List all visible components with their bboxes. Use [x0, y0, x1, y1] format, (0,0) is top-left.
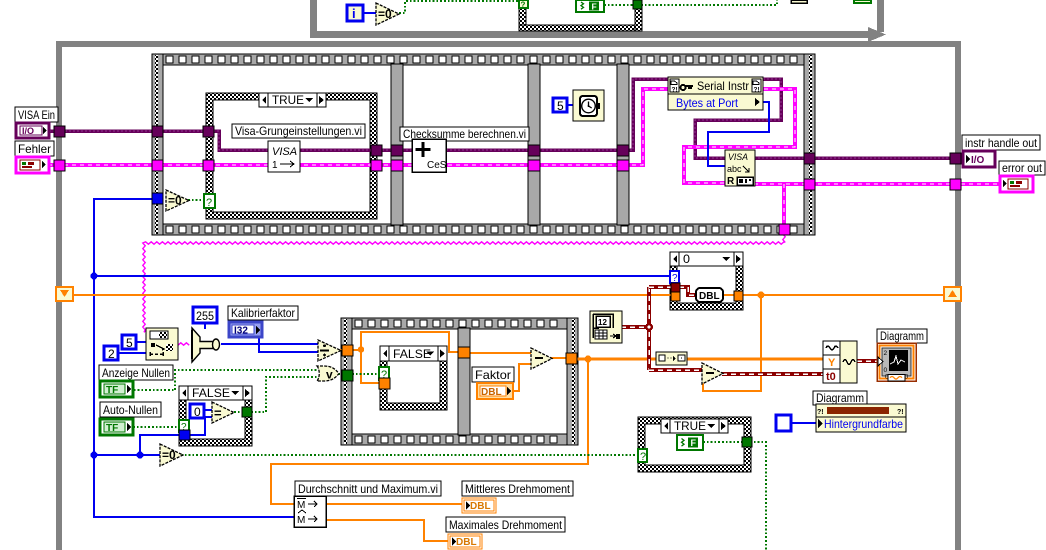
svg-text:?: ?: [206, 197, 212, 209]
tunnel blue FALSE case left: [179, 430, 190, 440]
case 0 DBL conversion: [696, 288, 723, 302]
svg-text:5: 5: [126, 336, 133, 350]
tunnel: pink on main frame left: [54, 160, 65, 171]
wire: blue constants to serial node: [136, 341, 146, 343]
svg-text:Serial Instr: Serial Instr: [697, 79, 749, 93]
tunnel divider seq2: [458, 347, 470, 358]
svg-text:DBL: DBL: [470, 501, 491, 512]
tunnel orange case0 right: [734, 291, 743, 301]
svg-text:I/O: I/O: [22, 126, 34, 136]
svg-text:Maximales Drehmoment: Maximales Drehmoment: [449, 518, 563, 532]
Wait (ms) icon: [573, 90, 604, 121]
selector FALSE case seq2: [379, 367, 389, 380]
Visa-Grungeinstellungen.vi label: [232, 124, 365, 138]
svg-text:?!: ?!: [672, 87, 678, 94]
Durchschnitt und Maximum.vi: [295, 481, 441, 496]
wire: i32 main blue net: [94, 198, 153, 200]
svg-text:M: M: [297, 515, 305, 526]
wire: timestamp maroon dashed: [621, 325, 649, 329]
wire: VISA resource (dark purple): [49, 79, 668, 150]
shift register right: [944, 287, 961, 301]
subtract node (seq2): [531, 348, 552, 369]
property node Serial Instr / Bytes at Port: [668, 77, 763, 110]
svg-text:?: ?: [521, 1, 526, 10]
wire: string (pink squiggle serial node to byte-array): [178, 343, 189, 345]
selector FALSE case left: [179, 420, 189, 432]
case structure 0 (middle right): [670, 252, 743, 310]
Visa-Grungeinstellungen.vi icon: [268, 141, 300, 172]
svg-text:Anzeige Nullen: Anzeige Nullen: [102, 366, 170, 380]
flat sequence structure (4 frames): [152, 54, 815, 65]
tunnels divider 1: [391, 145, 403, 156]
svg-text:TRUE: TRUE: [674, 419, 706, 433]
junction dots blue: [91, 273, 98, 280]
wire: color box to property node: [790, 422, 817, 424]
green dotted top loop: [399, 1, 519, 13]
tunnel orange case0 left: [671, 292, 680, 301]
Checksumme berechnen.vi label: [400, 127, 529, 141]
svg-text:TF: TF: [106, 385, 118, 396]
svg-text:TF: TF: [106, 423, 118, 434]
case structure TRUE (bottom right): [638, 417, 751, 472]
node (tan, partially visible top): [791, 0, 807, 3]
to-array small icon on Y wire: [656, 352, 687, 365]
selector TRUE case bottom: [638, 449, 647, 462]
case structure FALSE (inside sequence 2): [380, 346, 447, 410]
boolean local F icon (top loop case): [576, 0, 604, 12]
tunnel green top loop case: [633, 0, 642, 9]
wire: Bytes at Port to VISA read: [708, 102, 769, 166]
svg-text:Auto-Nullen: Auto-Nullen: [103, 403, 158, 417]
case structure TRUE (frame 1 of sequence): [206, 93, 377, 219]
svg-text:VISA: VISA: [728, 152, 748, 162]
svg-text:255: 255: [196, 309, 214, 323]
serial port init icon: [146, 328, 178, 360]
selector terminal case 0 (blue ?): [670, 271, 679, 283]
svg-text:Hintergrundfarbe: Hintergrundfarbe: [824, 417, 903, 431]
numeric constant 5 (serial): [122, 335, 136, 349]
while loop (main outer frame): [56, 41, 62, 550]
svg-text:FALSE: FALSE: [192, 386, 230, 400]
svg-text:v: v: [326, 368, 333, 382]
svg-text:Diagramm: Diagramm: [880, 329, 924, 343]
tunnels on case TRUE: [203, 126, 214, 137]
wire: error cluster (pink dashed): [48, 89, 795, 183]
wire: orange inside case 0: [723, 294, 735, 296]
tunnel: purple on main frame left: [54, 126, 65, 137]
subtract node (timestamp): [702, 363, 723, 384]
=0 node (frame 1): [166, 190, 189, 211]
while loop (top, partially visible): [310, 0, 317, 37]
VISA Read icon: [725, 150, 755, 186]
tunnel green TRUE case bottom right: [742, 437, 752, 447]
wire: orange shift register run: [72, 294, 671, 296]
svg-text:FALSE: FALSE: [393, 347, 431, 361]
selector top loop case: [519, 0, 528, 8]
svg-text:F: F: [691, 438, 697, 448]
tunnel seq2 right: [566, 353, 577, 364]
svg-text:1: 1: [272, 160, 278, 171]
tunnel: pink seq1 left: [152, 160, 163, 171]
Maximales Drehmoment indicator: [446, 517, 565, 532]
tunnels main frame right: [950, 153, 961, 164]
color box constant: [776, 415, 791, 431]
svg-text:t0: t0: [826, 371, 836, 383]
divide node: [318, 340, 341, 361]
svg-text:0: 0: [683, 252, 690, 266]
tunnel orange FALSE case seq2: [379, 378, 390, 389]
tunnel maroon case0: [671, 283, 680, 292]
svg-text:VISA: VISA: [272, 146, 297, 158]
svg-text:?: ?: [672, 273, 678, 284]
svg-text:Y: Y: [828, 357, 836, 369]
instr handle out indicator: [962, 135, 1040, 150]
or node: [317, 366, 339, 381]
svg-text:Kalibrierfaktor: Kalibrierfaktor: [231, 306, 295, 320]
Build Waveform node: [823, 341, 857, 383]
Diagramm property node (Hintergrundfarbe): [813, 391, 867, 405]
wire: i to =0 (top loop): [363, 12, 377, 14]
tunnel: purple seq1 left: [152, 126, 163, 137]
boolean indicator (partially visible top): [854, 0, 871, 3]
Kalibrierfaktor control: [228, 306, 298, 320]
svg-text:abc: abc: [727, 164, 742, 174]
svg-text:?!: ?!: [754, 87, 760, 94]
svg-text:TRUE: TRUE: [272, 93, 304, 107]
svg-text:Faktor: Faktor: [475, 368, 511, 382]
wire: orange DBL outputs bottom: [326, 503, 463, 505]
svg-text:2: 2: [108, 347, 115, 361]
svg-text:i: i: [352, 6, 356, 21]
iteration terminal i (top loop): [347, 5, 363, 21]
wire: boolean green dotted nets: [130, 389, 175, 391]
Anzeige Nullen control: [99, 365, 173, 380]
svg-text:2: 2: [884, 350, 888, 357]
numeric constant 5 (frame 3): [553, 98, 567, 112]
error out indicator: [999, 161, 1045, 175]
shift register left: [56, 287, 73, 301]
selector terminal case TRUE: [204, 194, 215, 208]
tunnels seq2 left: [342, 345, 353, 356]
=0 node (bottom, drives TRUE case): [160, 444, 183, 466]
svg-text:DBL: DBL: [481, 387, 502, 398]
svg-text:F: F: [592, 2, 597, 12]
case structure (top loop, partially visible): [519, 0, 526, 31]
svg-text:=0: =0: [378, 7, 392, 21]
Checksumme berechnen.vi icon: [412, 139, 446, 172]
case structure FALSE (small, left): [179, 386, 252, 446]
svg-text:5: 5: [557, 99, 564, 113]
wire: divide out to seq2: [340, 349, 345, 351]
svg-text:VISA Ein: VISA Ein: [18, 108, 55, 122]
tunnel seq1 bottom (pink): [779, 224, 790, 235]
svg-text:CeS: CeS: [427, 160, 447, 171]
svg-text:I/O: I/O: [971, 155, 985, 166]
svg-text:error out: error out: [1002, 161, 1043, 175]
svg-text:=0: =0: [162, 448, 176, 462]
wire: 5 to Wait ms: [566, 104, 574, 106]
Fehler control: [15, 141, 54, 156]
tunnels divider 3: [617, 145, 629, 156]
svg-text:DBL: DBL: [456, 537, 477, 548]
svg-text:0: 0: [194, 405, 201, 419]
svg-text:=0: =0: [168, 194, 182, 208]
numeric constant 255: [193, 307, 217, 323]
Get Date/Time in Seconds icon: [590, 311, 622, 343]
svg-text:Mittleres Drehmoment: Mittleres Drehmoment: [465, 482, 571, 496]
svg-text:DBL: DBL: [699, 291, 720, 302]
svg-text:?!: ?!: [817, 409, 824, 416]
wire: error cluster routed below sequence (zigzag): [143, 234, 785, 332]
flat sequence structure (2 frames, middle): [341, 318, 578, 329]
Auto-Nullen control: [100, 402, 161, 417]
svg-text:Diagramm: Diagramm: [816, 391, 864, 405]
Faktor control: [472, 367, 514, 382]
TRUE case boolean F local: [677, 435, 703, 450]
wire: byte-array out / Kalibrierfaktor to divide: [221, 343, 319, 345]
svg-text:?!: ?!: [897, 409, 904, 416]
tunnel: blue seq1 left: [152, 193, 163, 204]
string to byte array icon (funnel): [192, 328, 213, 362]
svg-text:M: M: [297, 500, 305, 511]
numeric constant 0 (FALSE case): [190, 404, 204, 418]
=0 node (top loop): [376, 3, 399, 25]
svg-text:Bytes at Port: Bytes at Port: [676, 96, 739, 110]
wire: orange frame2 subtract: [469, 352, 532, 354]
VISA Ein control: [15, 107, 58, 122]
tunnels divider 2: [528, 145, 540, 156]
numeric constant 2 (serial): [104, 346, 118, 360]
svg-text:Fehler: Fehler: [18, 142, 51, 156]
wire: orange waveform Y run: [576, 358, 656, 361]
svg-text:?: ?: [640, 451, 646, 463]
svg-text:12: 12: [598, 318, 607, 327]
tunnel green FALSE case right: [242, 407, 252, 417]
wire: blue inside FALSE case: [189, 417, 213, 435]
svg-text:I32: I32: [234, 326, 248, 337]
wire: orange inside seq2 frame1: [352, 349, 361, 351]
svg-text:Durchschnitt und Maximum.vi: Durchschnitt und Maximum.vi: [298, 482, 438, 496]
svg-text:=: =: [214, 406, 222, 421]
Mittleres Drehmoment indicator: [462, 481, 573, 496]
Diagramm chart indicator: [877, 329, 927, 343]
svg-text:R: R: [727, 176, 735, 187]
svg-text:instr handle out: instr handle out: [965, 136, 1038, 150]
tunnels seq1 right: [804, 153, 815, 164]
svg-text:Visa-Grungeinstellungen.vi: Visa-Grungeinstellungen.vi: [235, 124, 362, 138]
equal node (FALSE case): [212, 402, 234, 423]
